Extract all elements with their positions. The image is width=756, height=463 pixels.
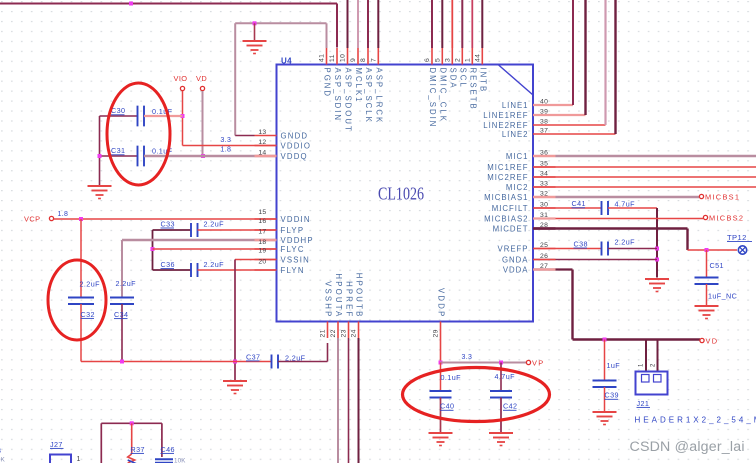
svg-text:7: 7 <box>370 58 377 62</box>
svg-text:37: 37 <box>540 128 548 135</box>
svg-text:FLYP: FLYP <box>281 226 305 235</box>
svg-text:LINE1REF: LINE1REF <box>483 111 528 120</box>
svg-text:40: 40 <box>540 99 548 106</box>
svg-text:5: 5 <box>434 58 441 62</box>
svg-text:2.2uF: 2.2uF <box>204 220 225 229</box>
svg-text:MICBS1: MICBS1 <box>705 193 740 202</box>
svg-text:VIO: VIO <box>174 74 188 83</box>
svg-text:3: 3 <box>444 58 451 62</box>
svg-text:10K: 10K <box>174 458 186 463</box>
svg-text:20: 20 <box>258 258 266 265</box>
svg-text:1: 1 <box>464 58 471 62</box>
svg-text:34: 34 <box>540 171 548 178</box>
svg-text:C38: C38 <box>574 239 588 248</box>
svg-text:C42: C42 <box>503 402 517 411</box>
svg-text:C36: C36 <box>161 260 175 269</box>
svg-text:MCLK1: MCLK1 <box>354 68 363 104</box>
svg-text:27: 27 <box>540 263 548 270</box>
svg-text:FLYC: FLYC <box>281 245 305 254</box>
svg-text:FLYN: FLYN <box>281 266 305 275</box>
svg-text:11: 11 <box>329 54 336 62</box>
svg-text:R37: R37 <box>131 445 145 454</box>
svg-text:VDDIN: VDDIN <box>281 215 311 224</box>
svg-text:C39: C39 <box>605 391 619 400</box>
svg-text:MIC2REF: MIC2REF <box>487 173 528 182</box>
svg-text:26: 26 <box>540 253 548 260</box>
svg-text:LINE2REF: LINE2REF <box>483 121 528 130</box>
svg-text:1: 1 <box>77 456 82 463</box>
svg-text:6: 6 <box>424 58 431 62</box>
svg-text:CSDN @alger_lai: CSDN @alger_lai <box>630 439 745 455</box>
svg-text:2: 2 <box>651 363 657 367</box>
svg-text:SDA: SDA <box>448 68 457 90</box>
svg-text:39: 39 <box>540 109 548 116</box>
svg-text:C46: C46 <box>161 445 175 454</box>
svg-text:18: 18 <box>258 239 266 246</box>
svg-text:VDDHP: VDDHP <box>281 236 314 245</box>
svg-text:1.8: 1.8 <box>58 211 69 218</box>
svg-text:RESETB: RESETB <box>468 68 477 111</box>
svg-text:HPOUTA: HPOUTA <box>334 273 343 318</box>
svg-text:41: 41 <box>319 54 326 62</box>
svg-text:MICBS2: MICBS2 <box>709 214 744 223</box>
svg-text:31: 31 <box>540 212 548 219</box>
svg-text:DMIC_CLK: DMIC_CLK <box>438 68 447 123</box>
svg-text:19: 19 <box>258 247 266 254</box>
svg-text:ASP_SCLK: ASP_SCLK <box>364 68 373 124</box>
svg-text:C37: C37 <box>246 352 260 361</box>
svg-text:CL1026: CL1026 <box>378 184 424 204</box>
svg-text:2.2uF: 2.2uF <box>80 280 101 289</box>
svg-text:25: 25 <box>540 242 548 249</box>
svg-text:HPOUTB: HPOUTB <box>355 273 364 319</box>
svg-text:14: 14 <box>258 150 266 157</box>
svg-text:VSSHP: VSSHP <box>324 281 333 318</box>
svg-text:15: 15 <box>258 209 266 216</box>
svg-text:1: 1 <box>639 363 645 367</box>
svg-text:17: 17 <box>258 228 266 235</box>
svg-text:VD: VD <box>706 337 719 346</box>
svg-text:44: 44 <box>474 54 481 62</box>
svg-text:36: 36 <box>540 150 548 157</box>
svg-text:U4: U4 <box>281 57 292 66</box>
svg-text:C30: C30 <box>111 106 125 115</box>
svg-text:3.3: 3.3 <box>221 137 232 144</box>
svg-text:HEADER1X2_2_54_M: HEADER1X2_2_54_M <box>635 416 756 425</box>
svg-text:HPREF: HPREF <box>345 281 354 318</box>
svg-text:8: 8 <box>360 58 367 62</box>
svg-text:9: 9 <box>350 58 357 62</box>
svg-text:13: 13 <box>258 129 266 136</box>
svg-text:MIC1: MIC1 <box>506 152 529 161</box>
svg-text:33: 33 <box>540 181 548 188</box>
svg-text:MIC1REF: MIC1REF <box>487 163 528 172</box>
svg-text:35: 35 <box>540 161 548 168</box>
svg-text:MICBIAS2: MICBIAS2 <box>484 215 528 224</box>
svg-text:C34: C34 <box>114 310 128 319</box>
svg-text:22: 22 <box>330 329 337 337</box>
svg-text:MICBIAS1: MICBIAS1 <box>484 193 528 202</box>
svg-text:0.1uF: 0.1uF <box>441 373 462 382</box>
svg-text:C31: C31 <box>111 146 125 155</box>
svg-text:10: 10 <box>340 54 347 62</box>
svg-text:12: 12 <box>258 139 266 146</box>
svg-text:8: 8 <box>0 448 2 455</box>
svg-text:C33: C33 <box>161 219 175 228</box>
svg-text:VP: VP <box>532 359 544 368</box>
svg-text:2.2uF: 2.2uF <box>116 279 137 288</box>
svg-text:VSSIN: VSSIN <box>281 256 310 265</box>
svg-text:3.3: 3.3 <box>462 354 473 361</box>
svg-text:C41: C41 <box>572 199 586 208</box>
svg-text:MIC2: MIC2 <box>506 183 529 192</box>
svg-text:VCP: VCP <box>24 215 40 224</box>
svg-text:2.2uF: 2.2uF <box>204 260 225 269</box>
svg-text:28: 28 <box>540 222 548 229</box>
svg-text:2.2uF: 2.2uF <box>285 354 306 363</box>
svg-text:2: 2 <box>454 58 461 62</box>
svg-text:24: 24 <box>351 329 358 337</box>
svg-text:VDDIO: VDDIO <box>281 142 312 151</box>
svg-text:VD: VD <box>196 74 207 83</box>
svg-text:VDDQ: VDDQ <box>281 152 308 161</box>
svg-text:LINE1: LINE1 <box>502 101 529 110</box>
svg-text:21: 21 <box>320 329 327 337</box>
svg-text:4.7uF: 4.7uF <box>495 372 516 381</box>
svg-text:4.7uF: 4.7uF <box>615 200 636 209</box>
svg-text:2.2uF: 2.2uF <box>615 238 636 247</box>
svg-text:INTB: INTB <box>478 68 487 94</box>
svg-text:VDDP: VDDP <box>437 288 446 318</box>
svg-text:SCL: SCL <box>458 68 467 89</box>
svg-text:29: 29 <box>433 329 440 337</box>
svg-text:GNDA: GNDA <box>502 256 529 265</box>
svg-text:DMIC_SDIN: DMIC_SDIN <box>428 68 437 129</box>
svg-text:VDDA: VDDA <box>503 266 529 275</box>
svg-text:MICFILT: MICFILT <box>492 204 529 213</box>
svg-text:0.1uF: 0.1uF <box>152 107 173 116</box>
svg-text:38: 38 <box>540 119 548 126</box>
svg-text:GNDD: GNDD <box>281 132 309 141</box>
svg-text:J27: J27 <box>50 440 63 449</box>
svg-text:LINE2: LINE2 <box>502 130 529 139</box>
svg-text:C40: C40 <box>440 402 454 411</box>
svg-text:ASP_SDOUT: ASP_SDOUT <box>344 68 353 133</box>
svg-text:MICDET: MICDET <box>493 225 529 234</box>
svg-text:32: 32 <box>540 191 548 198</box>
svg-text:PGND: PGND <box>323 68 332 99</box>
svg-text:C32: C32 <box>81 310 95 319</box>
svg-text:1uF: 1uF <box>607 361 621 370</box>
svg-text:C51: C51 <box>710 261 724 270</box>
svg-text:1uF_NC: 1uF_NC <box>708 292 737 301</box>
svg-text:23: 23 <box>341 329 348 337</box>
svg-text:J21: J21 <box>637 399 650 408</box>
svg-text:VREFP: VREFP <box>498 245 529 254</box>
svg-text:ASP_LRCK: ASP_LRCK <box>374 68 383 125</box>
svg-text:0K: 0K <box>0 457 6 463</box>
svg-text:TP12: TP12 <box>727 233 747 242</box>
svg-text:16: 16 <box>258 218 266 225</box>
svg-text:30: 30 <box>540 202 548 209</box>
svg-text:ASP_SDIN: ASP_SDIN <box>333 68 342 123</box>
svg-text:1.8: 1.8 <box>221 147 232 154</box>
